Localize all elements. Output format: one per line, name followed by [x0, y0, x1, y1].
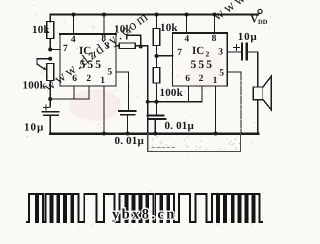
svg-text:555: 555 — [80, 59, 104, 71]
svg-text:1: 1 — [213, 76, 218, 86]
node VDD terminal — [258, 9, 262, 13]
value labels — [23, 22, 258, 147]
wire C3 to rail — [154, 119, 156, 134]
wire IC2 pin3 to C4 — [227, 51, 242, 53]
svg-text:100k: 100k — [23, 80, 47, 92]
wire IC2 pin1 to rail — [215, 86, 217, 134]
IC1 name — [79, 45, 103, 71]
node E — [155, 54, 159, 58]
node A — [48, 48, 52, 52]
scan noise speckles — [27, 5, 278, 227]
wire IC2 pin2 drop — [201, 86, 203, 102]
wire IC2 pin8 to rail — [214, 15, 216, 34]
wire node A to IC1 pin7 — [50, 49, 60, 51]
svg-text:7: 7 — [63, 44, 68, 54]
svg-text:6: 6 — [185, 74, 190, 84]
IC2 name — [191, 45, 215, 71]
wire speaker to rail — [257, 100, 259, 134]
wire VDD top rail — [50, 15, 258, 22]
potentiometer arrow of R2 — [37, 64, 45, 69]
IC U2 555 timer (IC2) box — [173, 33, 228, 86]
watermark pink wash — [69, 89, 121, 121]
node D — [139, 45, 143, 49]
node D2 — [146, 100, 150, 104]
svg-text:4: 4 — [184, 35, 189, 45]
wire IC2 pin5 down — [227, 71, 241, 73]
svg-text:555: 555 — [191, 59, 215, 71]
wire IC1 pin5 to C2 — [116, 72, 129, 111]
wire C4 to speaker — [247, 52, 258, 87]
pot R3 wiper bracket — [127, 35, 141, 46]
pot R2 arrowhead — [43, 67, 46, 70]
resistor R2 100k (potentiometer) — [47, 64, 54, 81]
IC U1 555 timer (IC1) box — [60, 34, 116, 86]
wire C2 to rail — [127, 115, 129, 134]
svg-text:ybx8.cn: ybx8.cn — [112, 207, 177, 223]
svg-text:1: 1 — [100, 76, 105, 86]
capacitor C4 10u plates — [241, 44, 243, 60]
node F — [155, 100, 159, 104]
wire loop below rail — [148, 134, 241, 152]
wire IC2 pin4 to rail — [186, 15, 188, 34]
plus sign of C4 — [234, 45, 240, 51]
svg-text:2: 2 — [206, 50, 210, 59]
node rail-pin8a — [102, 13, 106, 17]
wire R2 bottom to node C — [49, 81, 51, 108]
resistor R4 10k (vertical, IC2) — [153, 29, 160, 46]
watermark red diagonal text — [42, 0, 263, 95]
wire IC1 pin1 to rail — [103, 86, 105, 134]
svg-text:10µ: 10µ — [238, 31, 258, 43]
waveform output pulses — [26, 194, 263, 222]
IC2 pin labels — [177, 34, 224, 86]
wire R5 bottom to node F to C3 — [156, 83, 158, 116]
wire IC1 pin3 to R3 — [116, 45, 119, 47]
svg-text:2: 2 — [86, 74, 91, 84]
wire node E to IC2 pin7 — [157, 55, 173, 57]
speaker BL — [253, 87, 263, 100]
svg-text:DD: DD — [258, 19, 268, 26]
wire node C to IC1 pins 6,2 — [50, 98, 89, 100]
node rail-pin1b — [214, 132, 218, 136]
svg-text:4: 4 — [71, 35, 76, 45]
wire IC1 pin6 drop — [73, 86, 75, 99]
wire R4 to node E to R5 — [156, 46, 158, 68]
node rail-R4 — [155, 13, 159, 17]
capacitor C3 0.01u plates — [148, 115, 164, 117]
svg-text:10µ: 10µ — [24, 122, 44, 134]
node rail-C2 — [126, 132, 130, 136]
svg-text:10k: 10k — [114, 24, 132, 36]
wire R1 bottom to node A — [49, 39, 51, 50]
node rail-pin4b — [185, 13, 189, 17]
node rail-pin8b — [213, 13, 217, 17]
svg-text:0. 01µ: 0. 01µ — [165, 120, 195, 132]
resistor R1 10k (top-left vertical) — [47, 22, 54, 39]
svg-text:1: 1 — [93, 50, 97, 59]
svg-text:5: 5 — [219, 69, 224, 79]
svg-text:2: 2 — [199, 74, 204, 84]
IC1 pin and name labels — [63, 34, 112, 86]
resistor R3 10k horizontal pot — [119, 43, 135, 49]
svg-text:IC: IC — [79, 45, 91, 57]
capacitor C2 0.01u plates — [119, 110, 136, 112]
svg-text:3: 3 — [105, 41, 110, 51]
svg-text:0. 01µ: 0. 01µ — [115, 135, 145, 147]
node rail-pin1a — [102, 132, 106, 136]
svg-text:7: 7 — [177, 48, 182, 58]
wire R3 right to node D and down — [135, 46, 147, 134]
wire IC1 pin8 to rail — [103, 15, 105, 35]
wire C1 to bottom rail — [49, 115, 51, 133]
capacitor C1 10u plates — [43, 111, 59, 113]
plus sign of C1 — [44, 105, 50, 110]
wire node B to pot arrow — [37, 59, 50, 64]
svg-text:100k: 100k — [160, 87, 184, 99]
svg-text:10k: 10k — [160, 22, 178, 34]
wire IC2 pin6 drop — [188, 86, 190, 102]
wire mid rail drop to R4 — [156, 15, 158, 29]
node B — [48, 57, 52, 61]
svg-text:8: 8 — [212, 34, 217, 44]
svg-text:3: 3 — [218, 48, 223, 58]
node rail-C3 — [153, 132, 157, 136]
node C — [48, 97, 52, 101]
svg-text:5: 5 — [107, 68, 112, 78]
node rail-pin4a — [72, 13, 76, 17]
wire node F row to IC2 pins 6,2 — [148, 101, 202, 103]
svg-text:6: 6 — [72, 74, 77, 84]
wire IC1 pin2 drop — [88, 86, 90, 99]
wire IC1 pin4 to rail — [73, 15, 75, 35]
ground bottom rail — [50, 132, 258, 135]
label VDD — [251, 15, 268, 27]
resistor R5 100k (vertical, IC2) — [153, 68, 160, 84]
svg-text:IC: IC — [192, 45, 204, 57]
svg-text:10k: 10k — [32, 24, 50, 36]
